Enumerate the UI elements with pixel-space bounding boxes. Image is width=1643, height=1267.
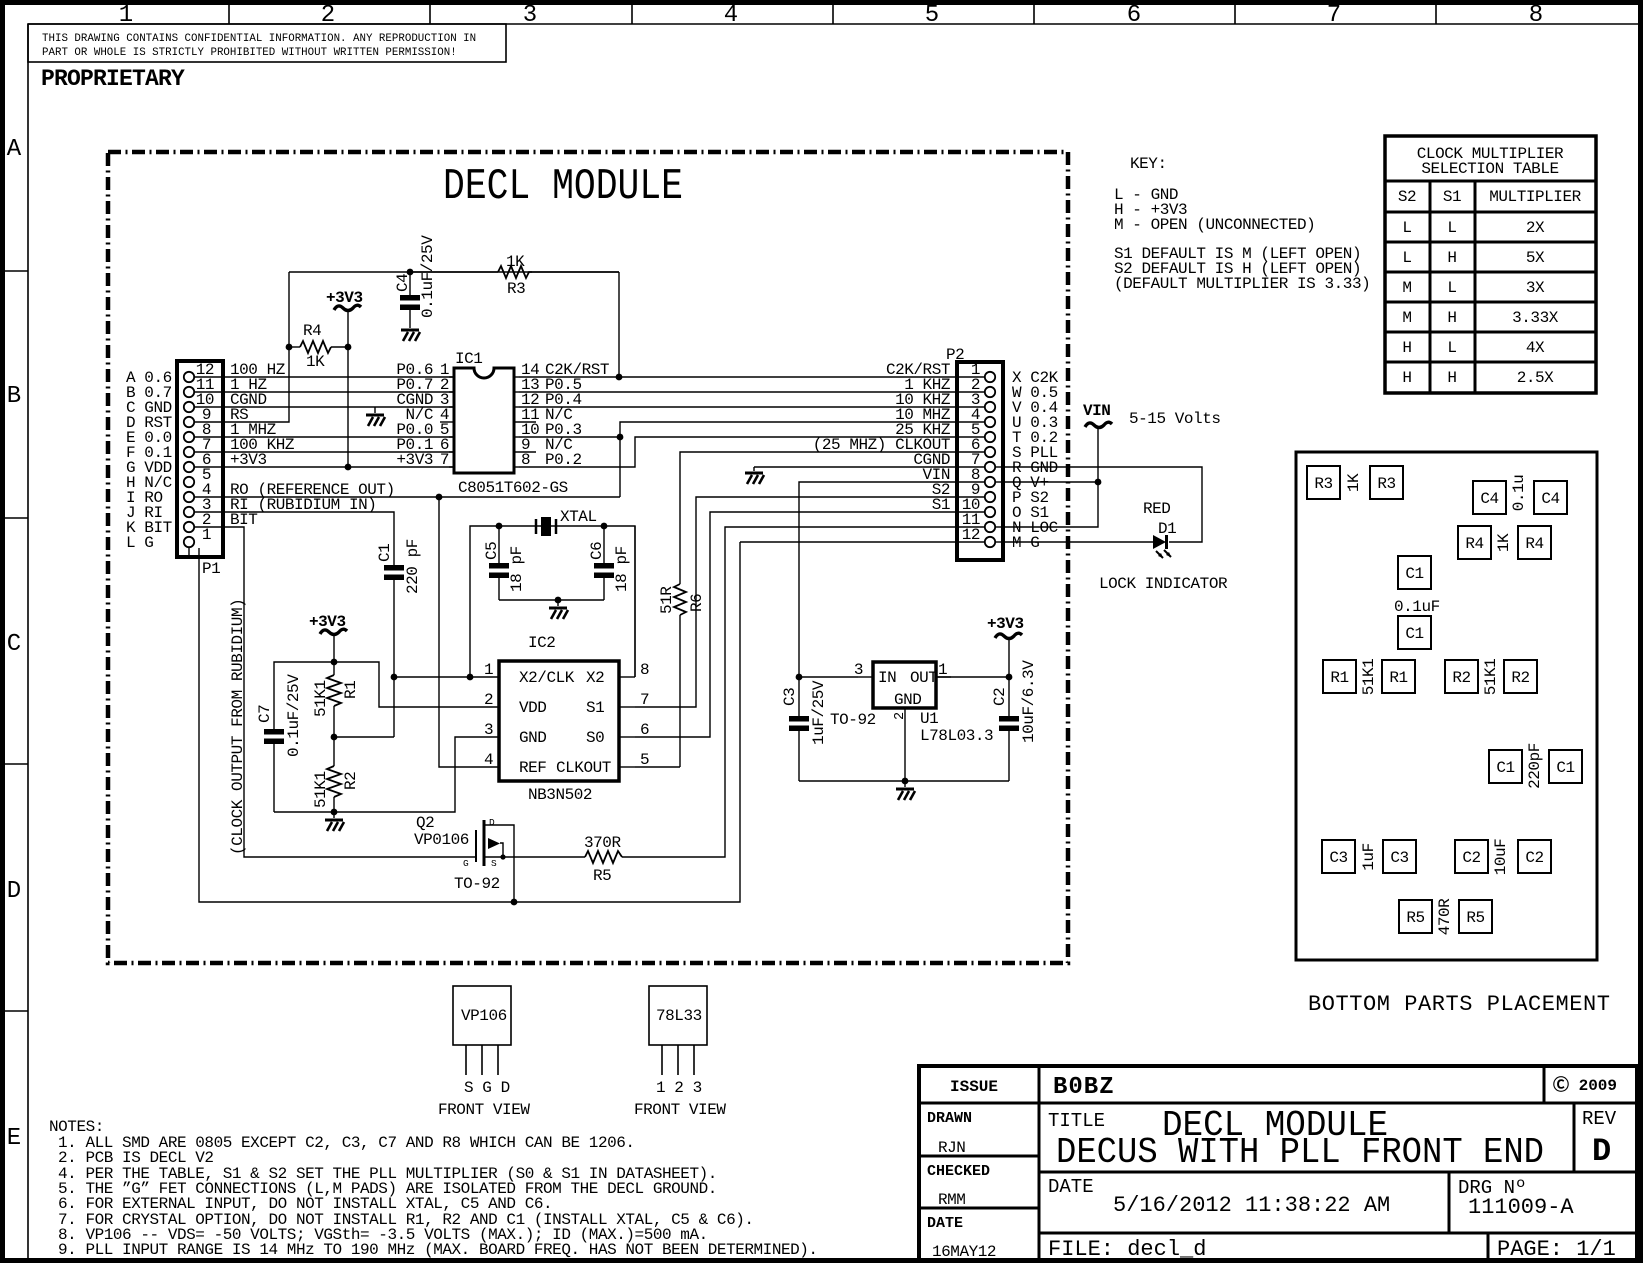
svg-text:M G: M G	[1012, 534, 1039, 552]
wire 100KHZ P1.7 to IC1.6	[194, 451, 454, 453]
svg-text:REV: REV	[1582, 1108, 1617, 1130]
svg-text:S2: S2	[1398, 188, 1416, 206]
svg-text:R4: R4	[303, 322, 321, 340]
svg-text:C5: C5	[483, 542, 501, 560]
svg-text:THIS DRAWING CONTAINS CONFIDEN: THIS DRAWING CONTAINS CONFIDENTIAL INFOR…	[42, 33, 476, 45]
zone ticks top	[229, 5, 1436, 24]
capacitor C6 18pF	[588, 526, 631, 600]
svg-text:CHECKED: CHECKED	[927, 1163, 990, 1180]
svg-text:FRONT VIEW: FRONT VIEW	[634, 1101, 726, 1119]
node XTAL bottom ground	[555, 597, 562, 604]
svg-text:1: 1	[202, 526, 211, 544]
svg-text:C1: C1	[1496, 759, 1514, 777]
svg-text:6: 6	[640, 721, 649, 739]
P1 net name labels	[230, 361, 395, 529]
svg-text:78L33: 78L33	[656, 1007, 702, 1025]
wire R1-R2	[333, 706, 335, 766]
svg-text:1K: 1K	[1345, 473, 1363, 492]
svg-text:IC2: IC2	[528, 634, 555, 652]
wire 1MHZ P1.8 to IC1.5	[194, 436, 454, 438]
svg-text:S0: S0	[586, 729, 604, 747]
svg-text:KEY:: KEY:	[1130, 155, 1167, 173]
svg-text:C8051T602-GS: C8051T602-GS	[458, 479, 568, 497]
svg-text:C2: C2	[1462, 849, 1480, 867]
svg-text:M: M	[1402, 279, 1411, 297]
svg-text:C2: C2	[1525, 849, 1543, 867]
svg-text:10uF: 10uF	[1492, 839, 1510, 876]
wire P0.3 IC1.10 to node	[519, 436, 620, 438]
wire G P1.1 bottom rail	[189, 547, 199, 557]
svg-text:470R: 470R	[1436, 898, 1454, 935]
svg-text:S1: S1	[932, 496, 950, 514]
wire RO P1.4	[194, 496, 620, 498]
svg-text:C1: C1	[1405, 625, 1423, 643]
svg-text:C2: C2	[991, 688, 1009, 706]
wire +3V3 P1.6 to IC1.7	[194, 466, 454, 468]
resistor R3 1K	[410, 253, 619, 298]
wire GND row to lock loop	[1003, 467, 1202, 542]
svg-text:OUT: OUT	[910, 669, 937, 687]
svg-text:D: D	[7, 878, 21, 905]
svg-text:VDD: VDD	[519, 699, 546, 717]
node RO/REF	[436, 494, 443, 501]
power +3V3 (R1 divider)	[309, 613, 347, 675]
svg-text:VP0106: VP0106	[414, 831, 469, 849]
svg-text:X2/CLK: X2/CLK	[519, 669, 575, 687]
key legend text	[1114, 155, 1370, 293]
capacitor C5 18pF	[483, 526, 526, 600]
power VIN	[1083, 402, 1112, 428]
node R4 left	[286, 344, 293, 351]
svg-text:1: 1	[484, 661, 493, 679]
wire RS P1.9	[194, 272, 289, 422]
capacitor C3 1uF/25V	[781, 677, 828, 781]
wire 100HZ P1.12 to IC1.1	[194, 376, 454, 378]
wire 1HZ P1.11 to IC1.2	[194, 391, 454, 393]
resistor R5 370R	[503, 834, 622, 885]
wire bottom rail C7/R2/IC2gnd	[274, 737, 499, 812]
svg-text:+3V3: +3V3	[309, 613, 346, 631]
svg-text:5/16/2012 11:38:22 AM: 5/16/2012 11:38:22 AM	[1113, 1193, 1390, 1218]
svg-text:7: 7	[1327, 2, 1341, 29]
svg-text:RMM: RMM	[938, 1191, 965, 1209]
svg-text:RJN: RJN	[938, 1139, 965, 1157]
svg-text:B0BZ: B0BZ	[1053, 1074, 1115, 1101]
svg-text:RED: RED	[1143, 500, 1170, 518]
svg-text:H: H	[1447, 249, 1456, 267]
svg-text:5: 5	[640, 751, 649, 769]
svg-text:S: S	[491, 858, 497, 869]
svg-text:TITLE: TITLE	[1048, 1110, 1105, 1132]
bottom parts placement board outline	[1296, 452, 1597, 960]
svg-text:18 pF: 18 pF	[613, 546, 631, 592]
node C3 top	[796, 674, 803, 681]
wire 25KHZ P2.5 jog to P0.2 IC1.8	[519, 437, 957, 467]
svg-text:3: 3	[484, 721, 493, 739]
svg-text:D: D	[1592, 1133, 1611, 1170]
wire X2/CLK row	[394, 676, 499, 678]
svg-text:DATE: DATE	[927, 1215, 963, 1232]
svg-text:L: L	[1447, 339, 1456, 357]
svg-text:220 pF: 220 pF	[404, 539, 422, 594]
svg-text:2.5X: 2.5X	[1517, 369, 1554, 387]
package 78L33 front view	[634, 986, 726, 1119]
svg-text:D1: D1	[1158, 520, 1176, 538]
svg-text:S G D: S G D	[464, 1079, 510, 1097]
svg-text:PAGE: 1/1: PAGE: 1/1	[1497, 1237, 1616, 1262]
svg-text:+3V3: +3V3	[396, 451, 433, 469]
wire C2K/RST IC1.14 to P2.1	[519, 376, 957, 378]
svg-text:+3V3: +3V3	[987, 615, 1024, 633]
node P0.3/10MHZ/RO	[617, 434, 624, 441]
node XTAL left / C5	[496, 523, 503, 530]
svg-text:51R: 51R	[658, 586, 676, 614]
svg-text:VIN: VIN	[1083, 402, 1110, 420]
resistor R1 51K1	[312, 675, 360, 717]
svg-text:TO-92: TO-92	[830, 711, 876, 729]
connector P1	[177, 361, 223, 578]
wire LOC P2.11 to R5	[622, 527, 957, 857]
svg-text:3.33X: 3.33X	[1512, 309, 1559, 327]
svg-text:R5: R5	[1466, 909, 1484, 927]
svg-text:(DEFAULT MULTIPLIER IS 3.33): (DEFAULT MULTIPLIER IS 3.33)	[1114, 275, 1370, 293]
svg-text:DRAWN: DRAWN	[927, 1110, 972, 1127]
svg-text:H: H	[1402, 339, 1411, 357]
svg-text:2X: 2X	[1526, 219, 1545, 237]
svg-text:FRONT VIEW: FRONT VIEW	[438, 1101, 530, 1119]
wire top loop	[289, 271, 619, 273]
node U1 out	[1006, 674, 1013, 681]
svg-text:1K: 1K	[306, 353, 325, 371]
svg-text:0.1uF: 0.1uF	[1394, 598, 1440, 616]
svg-text:4: 4	[724, 2, 738, 29]
wire G P2.12 left segment	[740, 541, 957, 543]
svg-text:C6: C6	[588, 542, 606, 560]
resistor R2 51K1	[312, 766, 360, 812]
capacitor C4 0.1uF/25V	[394, 235, 437, 328]
capacitor C7 0.1uF/25V	[256, 674, 303, 812]
svg-text:R5: R5	[593, 867, 611, 885]
wire BIT P1.2 to Q2 gate	[194, 527, 476, 857]
svg-text:51K1: 51K1	[1482, 659, 1500, 696]
svg-text:A: A	[7, 136, 22, 163]
svg-text:L G: L G	[126, 534, 153, 552]
svg-text:PART OR WHOLE IS STRICTLY PROH: PART OR WHOLE IS STRICTLY PROHIBITED WIT…	[42, 47, 457, 59]
wire U1 in rail	[799, 676, 858, 678]
svg-text:2: 2	[484, 691, 493, 709]
svg-text:1: 1	[119, 2, 133, 29]
node C4 top	[407, 269, 414, 276]
pad C4 pair	[1473, 481, 1506, 514]
node C2K/RST junction	[616, 374, 623, 381]
svg-text:REF: REF	[519, 759, 546, 777]
svg-text:R1: R1	[342, 681, 360, 699]
svg-text:R1: R1	[1330, 669, 1348, 687]
crystal XTAL	[470, 508, 635, 677]
power +3V3 (U1 out)	[987, 615, 1024, 716]
svg-text:5X: 5X	[1526, 249, 1545, 267]
svg-text:C: C	[7, 631, 21, 658]
pad R5 pair	[1399, 900, 1432, 933]
IC IC1 C8051T602-GS	[396, 350, 609, 497]
svg-text:7: 7	[440, 451, 449, 469]
svg-text:P1: P1	[202, 560, 220, 578]
svg-text:DATE: DATE	[1048, 1176, 1094, 1198]
wire CGND P2.7 to ground	[754, 466, 957, 468]
svg-text:111009-A: 111009-A	[1468, 1195, 1574, 1220]
svg-text:51K1: 51K1	[1360, 659, 1378, 696]
pad R1 pair	[1323, 660, 1356, 693]
wire P0.4 IC1.12 to P2.3	[519, 406, 957, 408]
svg-text:NB3N502: NB3N502	[528, 786, 592, 804]
pad R3 pair	[1307, 466, 1340, 499]
svg-text:ISSUE: ISSUE	[950, 1078, 998, 1096]
pad C2 pair	[1455, 840, 1488, 873]
svg-text:18 pF: 18 pF	[508, 546, 526, 592]
svg-text:H: H	[1402, 369, 1411, 387]
capacitor C2 10uF/6.3V	[991, 660, 1038, 781]
svg-text:LOCK INDICATOR: LOCK INDICATOR	[1099, 575, 1228, 593]
svg-text:BOTTOM PARTS PLACEMENT: BOTTOM PARTS PLACEMENT	[1308, 992, 1611, 1017]
pad C3 pair	[1322, 840, 1355, 873]
package VP106 front view	[438, 986, 530, 1119]
svg-text:C1: C1	[1405, 565, 1423, 583]
svg-text:8: 8	[640, 661, 649, 679]
svg-text:PROPRIETARY: PROPRIETARY	[41, 66, 185, 92]
svg-text:L: L	[1447, 279, 1456, 297]
svg-text:U1: U1	[920, 710, 938, 728]
node divider top	[331, 659, 338, 666]
pad R4 pair	[1458, 526, 1491, 559]
title block	[919, 1066, 1637, 1262]
P1 pin letter/name column	[126, 369, 172, 552]
resistor R6 51R	[635, 584, 706, 767]
svg-text:(CLOCK OUTPUT FROM RUBIDIUM): (CLOCK OUTPUT FROM RUBIDIUM)	[229, 599, 247, 855]
IC2 NB3N502	[484, 661, 649, 804]
svg-text:1uF: 1uF	[1360, 843, 1378, 870]
ground CGND	[366, 407, 385, 426]
svg-text:9. PLL INPUT RANGE IS 14 MHz T: 9. PLL INPUT RANGE IS 14 MHz TO 190 MHz …	[58, 1241, 818, 1259]
svg-text:1K: 1K	[1495, 533, 1513, 552]
svg-text:E: E	[7, 1125, 21, 1152]
node XTAL leg / X2CLK	[467, 674, 474, 681]
svg-text:R5: R5	[1406, 909, 1424, 927]
svg-text:5: 5	[925, 2, 939, 29]
pad C1 bottom	[1398, 616, 1431, 649]
svg-text:R2: R2	[1511, 669, 1529, 687]
svg-text:S1: S1	[1443, 188, 1461, 206]
pad C1 pair	[1489, 750, 1522, 783]
power +3V3 (top)	[326, 289, 363, 467]
svg-text:MULTIPLIER: MULTIPLIER	[1489, 188, 1581, 206]
svg-text:R3: R3	[1314, 475, 1332, 493]
svg-text:C3: C3	[781, 688, 799, 706]
ground XTAL	[549, 600, 568, 619]
node +3V3 to IC1 row	[345, 464, 352, 471]
node U1 gnd	[902, 778, 909, 785]
capacitor C1 220pF	[376, 539, 422, 737]
wire S1 P2.10 to IC2.6	[635, 512, 957, 737]
svg-text:S1: S1	[586, 699, 604, 717]
wire C1 to divider mid	[334, 736, 394, 738]
zone ticks left	[5, 271, 28, 1011]
node divider bottom	[331, 809, 338, 816]
svg-text:220pF: 220pF	[1526, 743, 1544, 789]
svg-text:FILE: decl_d: FILE: decl_d	[1048, 1237, 1206, 1262]
confidential notice box	[28, 24, 506, 62]
svg-text:B: B	[7, 383, 21, 410]
svg-text:R2: R2	[1452, 669, 1470, 687]
wire V+ row to VIN	[1003, 481, 1098, 483]
connector P2	[946, 346, 1003, 560]
svg-text:R3: R3	[1377, 475, 1395, 493]
svg-text:IN: IN	[878, 669, 896, 687]
svg-text:0.1uF/25V: 0.1uF/25V	[285, 674, 303, 757]
wire 10MHZ P2.4 jog to RO	[620, 422, 957, 497]
node Q2 drain rail junction	[511, 899, 518, 906]
svg-text:R4: R4	[1465, 535, 1483, 553]
svg-text:0.1uF/25V: 0.1uF/25V	[419, 235, 437, 318]
svg-text:Ⓒ 2009: Ⓒ 2009	[1553, 1075, 1617, 1095]
svg-text:L78L03.3: L78L03.3	[920, 727, 993, 745]
svg-text:L: L	[1402, 249, 1411, 267]
svg-text:0.1u: 0.1u	[1510, 475, 1528, 512]
svg-text:H: H	[1447, 309, 1456, 327]
wire P0.5 IC1.13 to P2.2	[519, 391, 957, 393]
pad C1 top	[1398, 556, 1431, 589]
svg-text:M - OPEN (UNCONNECTED): M - OPEN (UNCONNECTED)	[1114, 216, 1315, 234]
transistor Q2 VP0106	[414, 814, 514, 902]
svg-text:3: 3	[523, 2, 537, 29]
svg-text:C7: C7	[256, 705, 274, 723]
svg-text:1K: 1K	[506, 253, 525, 271]
zone letters left	[7, 136, 22, 1152]
svg-text:C4: C4	[1480, 490, 1498, 508]
node VIN junction	[1095, 479, 1102, 486]
svg-text:H: H	[1447, 369, 1456, 387]
wire C7 top	[274, 662, 334, 729]
wire RI P1.3 to C1	[194, 512, 394, 565]
svg-text:R3: R3	[507, 280, 525, 298]
svg-text:5-15 Volts: 5-15 Volts	[1129, 410, 1221, 428]
svg-text:6: 6	[1127, 2, 1141, 29]
ground CGND P2	[745, 467, 764, 484]
notes block	[49, 1118, 818, 1259]
wire CLKOUT P2.6 through R6 to IC2.5	[680, 452, 957, 584]
pad R2 pair	[1445, 660, 1478, 693]
ground U1	[896, 781, 915, 800]
clock multiplier selection table	[1385, 136, 1596, 393]
wire VIN P2.8 to U1	[799, 482, 957, 677]
wire R3 right leg down to C2K/RST	[618, 272, 620, 377]
svg-text:370R: 370R	[584, 834, 621, 852]
wire CGND P1.10 to IC1.3	[194, 406, 454, 408]
svg-text:L: L	[1447, 219, 1456, 237]
svg-text:L: L	[1402, 219, 1411, 237]
svg-text:GND: GND	[519, 729, 546, 747]
svg-text:TO-92: TO-92	[454, 875, 500, 893]
svg-text:2: 2	[893, 712, 908, 720]
module dash-dot boundary	[108, 152, 1068, 963]
svg-text:CLKOUT: CLKOUT	[556, 759, 611, 777]
resistor R4 1K	[289, 322, 348, 371]
ground divider	[325, 812, 344, 831]
wire S2 P2.9 to IC2.7	[635, 497, 957, 707]
svg-text:51K1: 51K1	[312, 771, 330, 808]
wire VIN drop to LOC	[1003, 428, 1098, 527]
node XTAL right / C6	[601, 523, 608, 530]
wire U1 out to C2	[936, 676, 1009, 678]
svg-text:1 2 3: 1 2 3	[656, 1079, 702, 1097]
svg-text:SELECTION TABLE: SELECTION TABLE	[1421, 160, 1558, 178]
svg-text:XTAL: XTAL	[560, 508, 597, 526]
svg-text:C4: C4	[394, 274, 412, 292]
diode D1 RED LED	[1143, 500, 1176, 558]
svg-text:10uF/6.3V: 10uF/6.3V	[1020, 660, 1038, 743]
svg-text:1uF/25V: 1uF/25V	[810, 680, 828, 745]
P2 right letter/name column	[1012, 369, 1059, 552]
svg-text:IC1: IC1	[455, 350, 482, 368]
svg-text:51K1: 51K1	[312, 680, 330, 717]
node divider mid	[331, 734, 338, 741]
svg-text:C3: C3	[1390, 849, 1408, 867]
svg-text:3X: 3X	[1526, 279, 1545, 297]
wire G row to LED anode	[1003, 541, 1153, 543]
svg-text:4: 4	[484, 751, 493, 769]
svg-text:GND: GND	[894, 691, 921, 709]
svg-text:C1: C1	[1556, 759, 1574, 777]
svg-text:R1: R1	[1389, 669, 1407, 687]
svg-text:R2: R2	[342, 772, 360, 790]
svg-text:C4: C4	[1541, 490, 1559, 508]
svg-text:DECL MODULE: DECL MODULE	[443, 162, 683, 212]
ground C4	[401, 330, 420, 341]
P2 left net labels	[813, 361, 951, 514]
node R4 right	[345, 344, 352, 351]
wire X2 IC2.8 to XTAL right	[634, 526, 636, 677]
svg-text:7: 7	[640, 691, 649, 709]
node C1 / X2CLK	[391, 674, 398, 681]
svg-text:16MAY12: 16MAY12	[932, 1243, 996, 1261]
svg-text:8: 8	[1529, 2, 1543, 29]
svg-text:M: M	[1402, 309, 1411, 327]
zone numbers top	[119, 2, 1543, 29]
svg-text:G: G	[463, 858, 469, 869]
svg-text:C1: C1	[376, 544, 394, 562]
svg-text:DECUS WITH PLL FRONT END: DECUS WITH PLL FRONT END	[1056, 1132, 1544, 1173]
svg-text:2: 2	[321, 2, 335, 29]
regulator U1 L78L03.3	[830, 661, 993, 781]
svg-text:4X: 4X	[1526, 339, 1545, 357]
wire XTAL bottom	[499, 599, 604, 601]
wire REF jog RO to IC2.4	[439, 497, 499, 767]
svg-text:R6: R6	[688, 594, 706, 612]
svg-text:R4: R4	[1525, 535, 1543, 553]
svg-text:Q2: Q2	[416, 814, 434, 832]
svg-text:C3: C3	[1329, 849, 1347, 867]
wire VDD jog	[334, 662, 499, 707]
svg-text:X2: X2	[586, 669, 604, 687]
wire U1 ground rail	[799, 780, 1009, 782]
svg-text:VP106: VP106	[461, 1007, 507, 1025]
svg-text:D: D	[489, 817, 495, 828]
